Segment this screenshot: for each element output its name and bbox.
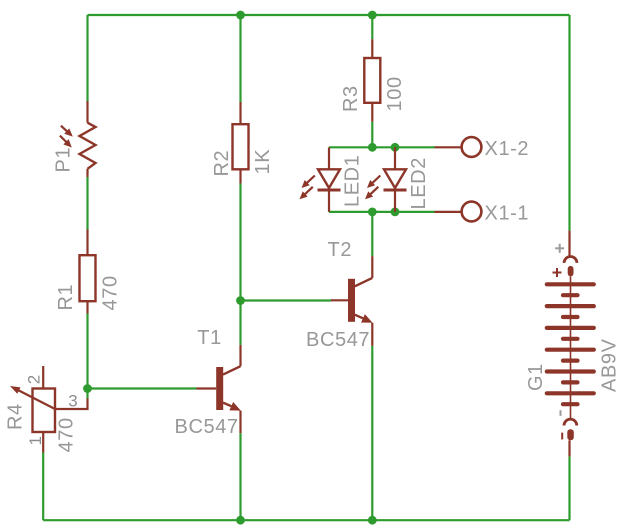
junction LED bottom bus LED2 — [391, 208, 400, 217]
LED1 anode pin — [328, 147, 330, 169]
transistor T2 base bar — [348, 279, 355, 322]
junction LED top bus LED2 — [391, 143, 400, 152]
svg-text:2: 2 — [25, 375, 44, 384]
connector X1-1 pin — [435, 211, 462, 213]
wire LED bottom bus — [329, 211, 435, 213]
battery G1 cell plate long 1 — [547, 282, 594, 286]
wire T1 emitter to bottom rail — [239, 433, 241, 520]
transistor T1 collector diagonal — [223, 366, 241, 374]
resistor R1 pin bottom — [86, 301, 88, 313]
junction top rail R2 — [236, 11, 245, 20]
battery G1 cell plate long 2 — [547, 304, 594, 308]
battery G1 symbol plus sign — [553, 268, 562, 277]
wire T1 collector — [239, 301, 241, 345]
wire R3 bottom — [371, 122, 373, 148]
transistor T1 collector pin — [239, 345, 241, 366]
svg-text:R1: R1 — [55, 284, 77, 311]
photoresistor P1 pin top — [86, 101, 88, 123]
battery G1 cell plate short 3 — [563, 337, 578, 341]
photoresistor P1 zigzag — [80, 123, 96, 169]
potentiometer R4 pin 1 — [42, 432, 44, 453]
svg-text:1K: 1K — [252, 149, 274, 175]
wire R2 top — [239, 15, 241, 102]
potentiometer R4 wiper pin 3 — [55, 399, 88, 410]
svg-text:G1: G1 — [525, 363, 547, 391]
junction LED bottom bus center — [368, 208, 377, 217]
wire T1 base — [88, 387, 197, 389]
svg-text:BC547: BC547 — [306, 329, 370, 351]
resistor R1 — [80, 255, 96, 301]
transistor T2 collector diagonal — [355, 278, 373, 286]
connector X1-1 circle — [462, 202, 482, 222]
junction top rail R3 — [368, 11, 377, 20]
junction LED top bus center — [368, 143, 377, 152]
wire left rail below R1 — [86, 314, 88, 389]
svg-text:R3: R3 — [340, 85, 362, 112]
battery G1 cell plate long 4 — [547, 348, 594, 352]
connector X1-2 pin — [435, 146, 462, 148]
LED1 triangle — [318, 169, 340, 188]
wire right rail — [568, 15, 570, 231]
wire R4 wiper to node — [86, 389, 88, 399]
LED2 emission arrow 2 — [365, 187, 378, 200]
battery G1 cell plate short 5 — [563, 380, 578, 384]
wire bottom rail — [43, 519, 569, 521]
battery G1 cell plate short 4 — [563, 359, 578, 363]
LED2 anode pin — [394, 147, 396, 169]
photoresistor P1 pin bottom — [86, 169, 88, 177]
LED2 emission arrow 1 — [367, 176, 380, 189]
battery G1 cell plate long 6 — [547, 391, 594, 395]
LED2 cathode bar — [384, 189, 407, 192]
battery G1 cell plate short 2 — [563, 315, 578, 319]
LED1 emission arrow 2 — [300, 187, 313, 200]
resistor R2 — [233, 124, 249, 169]
connector X1-2 circle — [462, 137, 482, 157]
potentiometer R4 wiper arrow — [10, 386, 55, 409]
LED1 cathode pin — [328, 190, 330, 212]
potentiometer R4 pin 2 — [42, 366, 44, 389]
transistor T2 collector pin — [371, 256, 373, 278]
junction node R2/T1/T2 — [236, 296, 245, 305]
transistor T1 emitter pin — [239, 411, 241, 434]
resistor R3 pin bottom — [371, 103, 373, 122]
resistor R2 pin top — [239, 102, 241, 124]
wire LED top bus — [329, 146, 435, 148]
battery G1 center lead through plates — [570, 276, 572, 419]
battery G1 plus pin — [568, 231, 570, 257]
battery G1 top clip stud — [568, 266, 574, 276]
svg-text:BC547: BC547 — [175, 416, 239, 438]
junction bottom rail T1 — [236, 516, 245, 525]
battery G1 cell plate long 5 — [547, 369, 594, 373]
wire R3 top — [371, 15, 373, 39]
wire T2 base — [241, 299, 332, 301]
battery G1 bottom clip arc — [564, 419, 577, 425]
resistor R2 pin bottom — [239, 169, 241, 183]
resistor R3 pin top — [371, 39, 373, 58]
wire R4 pin1 to bottom rail — [42, 453, 44, 521]
transistor T2 emitter arrowhead — [361, 314, 372, 323]
svg-text:R4: R4 — [5, 403, 27, 430]
svg-text:P1: P1 — [53, 147, 75, 173]
battery G1 cell plate short 1 — [563, 293, 578, 297]
resistor R3 — [364, 58, 380, 103]
LED2 cathode pin — [394, 190, 396, 212]
transistor T2 base pin — [331, 299, 348, 301]
transistor T1 base bar — [216, 367, 223, 410]
photoresistor P1 light arrow 2 — [60, 136, 72, 148]
svg-text:R2: R2 — [211, 150, 233, 177]
potentiometer R4 body — [33, 389, 56, 433]
junction node R4 wiper — [83, 384, 92, 393]
LED1 emission arrow 1 — [302, 176, 315, 189]
wire left rail upper — [86, 15, 88, 101]
battery G1 bottom clip stud — [567, 429, 574, 440]
photoresistor P1 light arrow 1 — [61, 126, 73, 137]
transistor T1 base pin — [197, 387, 217, 389]
battery G1 top clip arc — [564, 256, 577, 262]
svg-text:T2: T2 — [328, 239, 353, 261]
resistor R1 pin top — [86, 230, 88, 256]
svg-text:100: 100 — [384, 76, 406, 111]
svg-text:X1-2: X1-2 — [485, 138, 530, 160]
wire T2 collector — [371, 212, 373, 256]
svg-text:X1-1: X1-1 — [485, 203, 530, 225]
battery G1 symbol minus sign — [561, 433, 563, 440]
battery G1 minus pin — [568, 440, 570, 456]
svg-text:T1: T1 — [197, 327, 222, 349]
svg-text:LED1: LED1 — [342, 155, 364, 207]
wire left rail between P1 and R1 — [86, 177, 88, 230]
svg-text:LED2: LED2 — [408, 157, 430, 209]
LED2 triangle — [384, 169, 406, 188]
battery G1 pin name plus sign — [555, 244, 564, 253]
svg-text:470: 470 — [100, 275, 122, 310]
svg-text:1: 1 — [26, 436, 45, 445]
battery G1 cell plate short 6 — [563, 402, 578, 406]
wire battery minus to bottom rail — [568, 456, 570, 520]
svg-text:AB9V: AB9V — [599, 338, 620, 392]
battery G1 cell plate long 3 — [547, 326, 594, 330]
transistor T2 emitter diagonal — [355, 315, 363, 319]
svg-text:470: 470 — [56, 417, 78, 452]
LED1 cathode bar — [318, 189, 341, 192]
battery G1 pin name minus sign — [560, 410, 562, 416]
svg-text:3: 3 — [68, 392, 77, 411]
wire T2 emitter to bottom rail — [371, 346, 373, 520]
wire top rail — [88, 14, 570, 16]
transistor T1 emitter diagonal — [223, 403, 231, 407]
transistor T2 emitter pin — [371, 323, 373, 346]
junction bottom rail T2 — [368, 516, 377, 525]
wire R2 bottom to node — [239, 184, 241, 301]
transistor T1 emitter arrowhead — [229, 402, 240, 411]
